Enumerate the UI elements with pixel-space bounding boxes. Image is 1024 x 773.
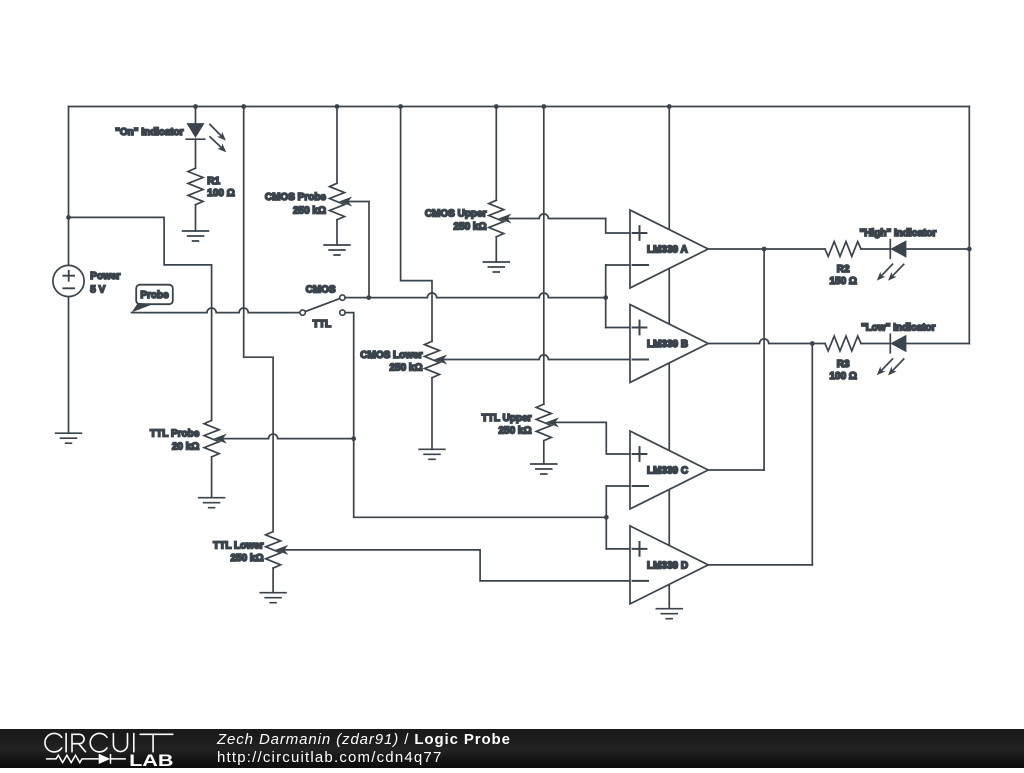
svg-text:TTL: TTL [313,319,331,330]
op-amp U1 LM339 D [630,526,708,604]
svg-text:LM339 A: LM339 A [647,245,688,256]
svg-text:20 kΩ: 20 kΩ [172,442,199,453]
wire probe to switch common (hops over two verticals) [132,308,300,313]
svg-text:250 kΩ: 250 kΩ [453,221,486,232]
wire right rail down to Low indicator [968,107,970,344]
wire left rail lower (power source - to ground) [68,297,70,434]
wire top rail to CMOS Lower pot [398,104,432,341]
svg-text:R3: R3 [837,359,850,370]
LED "High" Indicator [860,228,937,281]
CircuitLab logo CIRCUIT wordmark [45,733,173,751]
wire TTL Probe wiper to TTL node (hop at x=273.1) [223,434,354,439]
wire top rail to TTL Lower pot [241,104,273,531]
svg-text:R2: R2 [837,264,850,275]
ground (below CMOS Lower) [419,449,445,459]
potentiometer TTL Lower 250 kΩ [213,532,287,569]
wire TTL Lower pot to ground [272,568,274,593]
svg-text:CMOS Upper: CMOS Upper [425,209,487,220]
wire power rail tap to TTL Probe pot (with junction) [66,215,212,420]
svg-text:R1: R1 [207,176,220,187]
ground (below LM339 D) [656,609,682,619]
wire switch TTL contact down to TTL threshold node [345,313,609,520]
svg-text:Probe: Probe [140,290,169,301]
wire R1 to ground [195,205,197,231]
wire TTL Lower wiper to comparator D - input [284,550,630,581]
LED D1 "On" Indicator [115,124,226,153]
ground (below TTL Lower) [260,593,286,603]
svg-text:CMOS Lower: CMOS Lower [360,350,422,361]
svg-text:250 kΩ: 250 kΩ [230,553,263,564]
probe flag label [132,285,173,313]
resistor R1 100 Ω [188,168,235,205]
wire switch CMOS contact to comparator A-/B+ node (hops at x=432,x=543.8) [345,293,608,300]
svg-text:CMOS Probe: CMOS Probe [265,192,327,203]
wire LED cathode to R1 [195,139,197,168]
wire top rail to TTL Upper pot [541,104,546,404]
wire LM339 D output [708,564,812,566]
svg-text:250 kΩ: 250 kΩ [498,425,531,436]
svg-text:LM339 C: LM339 C [647,466,688,477]
svg-text:5 V: 5 V [90,284,105,295]
wire top rail to CMOS Upper pot [494,104,499,200]
svg-text:TTL Upper: TTL Upper [482,413,532,424]
wire LM339 C output [708,469,764,471]
wire CMOS Upper wiper to comparator A + input (hop at x=543.8) [507,214,630,233]
svg-text:250 kΩ: 250 kΩ [293,205,326,216]
ground (below TTL Probe) [199,498,225,508]
svg-text:http://circuitlab.com/cdn4q77: http://circuitlab.com/cdn4q77 [217,749,443,766]
footer bar [0,729,1024,768]
wire top rail to CMOS Probe pot [335,104,340,183]
resistor R3 100 Ω [825,336,861,382]
wire TTL Probe pot to ground [211,457,213,498]
ground (below CMOS Probe) [324,245,350,255]
svg-text:"On" Indicator: "On" Indicator [115,127,183,138]
wire left rail upper (top rail to power source +) [68,107,70,266]
ground (below R1) [183,231,209,241]
wire link A output to C output [763,249,765,470]
wire CMOS Lower wiper to comparator B - input (hop at x=543.8) [443,355,630,360]
svg-text:100 Ω: 100 Ω [207,188,234,199]
CircuitLab logo resistor-diode glyph [46,754,126,764]
wire Low LED to right rail corner [906,343,969,345]
wire TTL Upper wiper to comparator C + input [555,422,630,454]
svg-text:"Low" Indicator: "Low" Indicator [861,323,936,334]
potentiometer CMOS Upper 250 kΩ [425,200,510,237]
wire CMOS Probe wiper to switch wire junction [348,202,369,298]
svg-text:"High" Indicator: "High" Indicator [860,228,937,239]
wire LM339 A output to R2 (junction to C link) [708,247,825,252]
potentiometer CMOS Lower 250 kΩ [360,341,446,378]
svg-text:LM339 D: LM339 D [647,561,688,572]
svg-text:TTL Lower: TTL Lower [213,540,263,551]
svg-text:Power: Power [90,271,120,282]
wire TTL Upper pot to ground [543,441,545,464]
wire top rail to LED anode [193,104,198,124]
op-amp U1 LM339 A [630,210,708,288]
wire comparator power chain V+/V- (top rail to ground) [667,104,672,609]
svg-text:100 Ω: 100 Ω [829,371,856,382]
svg-text:CMOS: CMOS [306,284,336,295]
svg-text:TTL Probe: TTL Probe [150,429,200,440]
ground (below power source) [56,433,82,443]
switch SW1 CMOS/TTL [300,284,345,330]
LED "Low" Indicator [861,323,936,376]
wire node C-/D+ link with input stubs [606,486,630,549]
op-amp U1 LM339 B [630,305,708,383]
wire CMOS Lower pot to ground [431,378,433,450]
resistor R2 150 Ω [825,242,861,287]
ground (below TTL Upper) [531,464,557,474]
voltage source V1 Power 5 V [53,265,121,296]
potentiometer TTL Upper 250 kΩ [482,404,558,441]
wire R2 to High LED [861,248,890,250]
wire LM339 B output to R3 (hop over A-C link, junction to D link) [708,339,825,346]
ground (below CMOS Upper) [483,262,509,272]
svg-text:250 kΩ: 250 kΩ [389,363,422,374]
wire top power rail [69,106,970,108]
svg-text:LAB: LAB [129,751,174,768]
potentiometer CMOS Probe 250 kΩ [265,183,351,220]
wire CMOS Upper pot to ground [495,237,497,262]
op-amp U1 LM339 C [630,431,708,509]
wire link B output to D output [811,344,813,565]
wire High LED to right rail [906,247,972,252]
wire node A-/B+ link with input stubs [606,265,630,328]
wire R3 to Low LED [861,343,890,345]
potentiometer TTL Probe 20 kΩ [150,420,226,457]
svg-text:150 Ω: 150 Ω [829,276,856,287]
svg-text:Zech Darmanin (zdar91) / Logic: Zech Darmanin (zdar91) / Logic Probe [216,731,511,748]
svg-text:LM339 B: LM339 B [647,339,688,350]
wire CMOS Probe pot to ground [336,220,338,245]
